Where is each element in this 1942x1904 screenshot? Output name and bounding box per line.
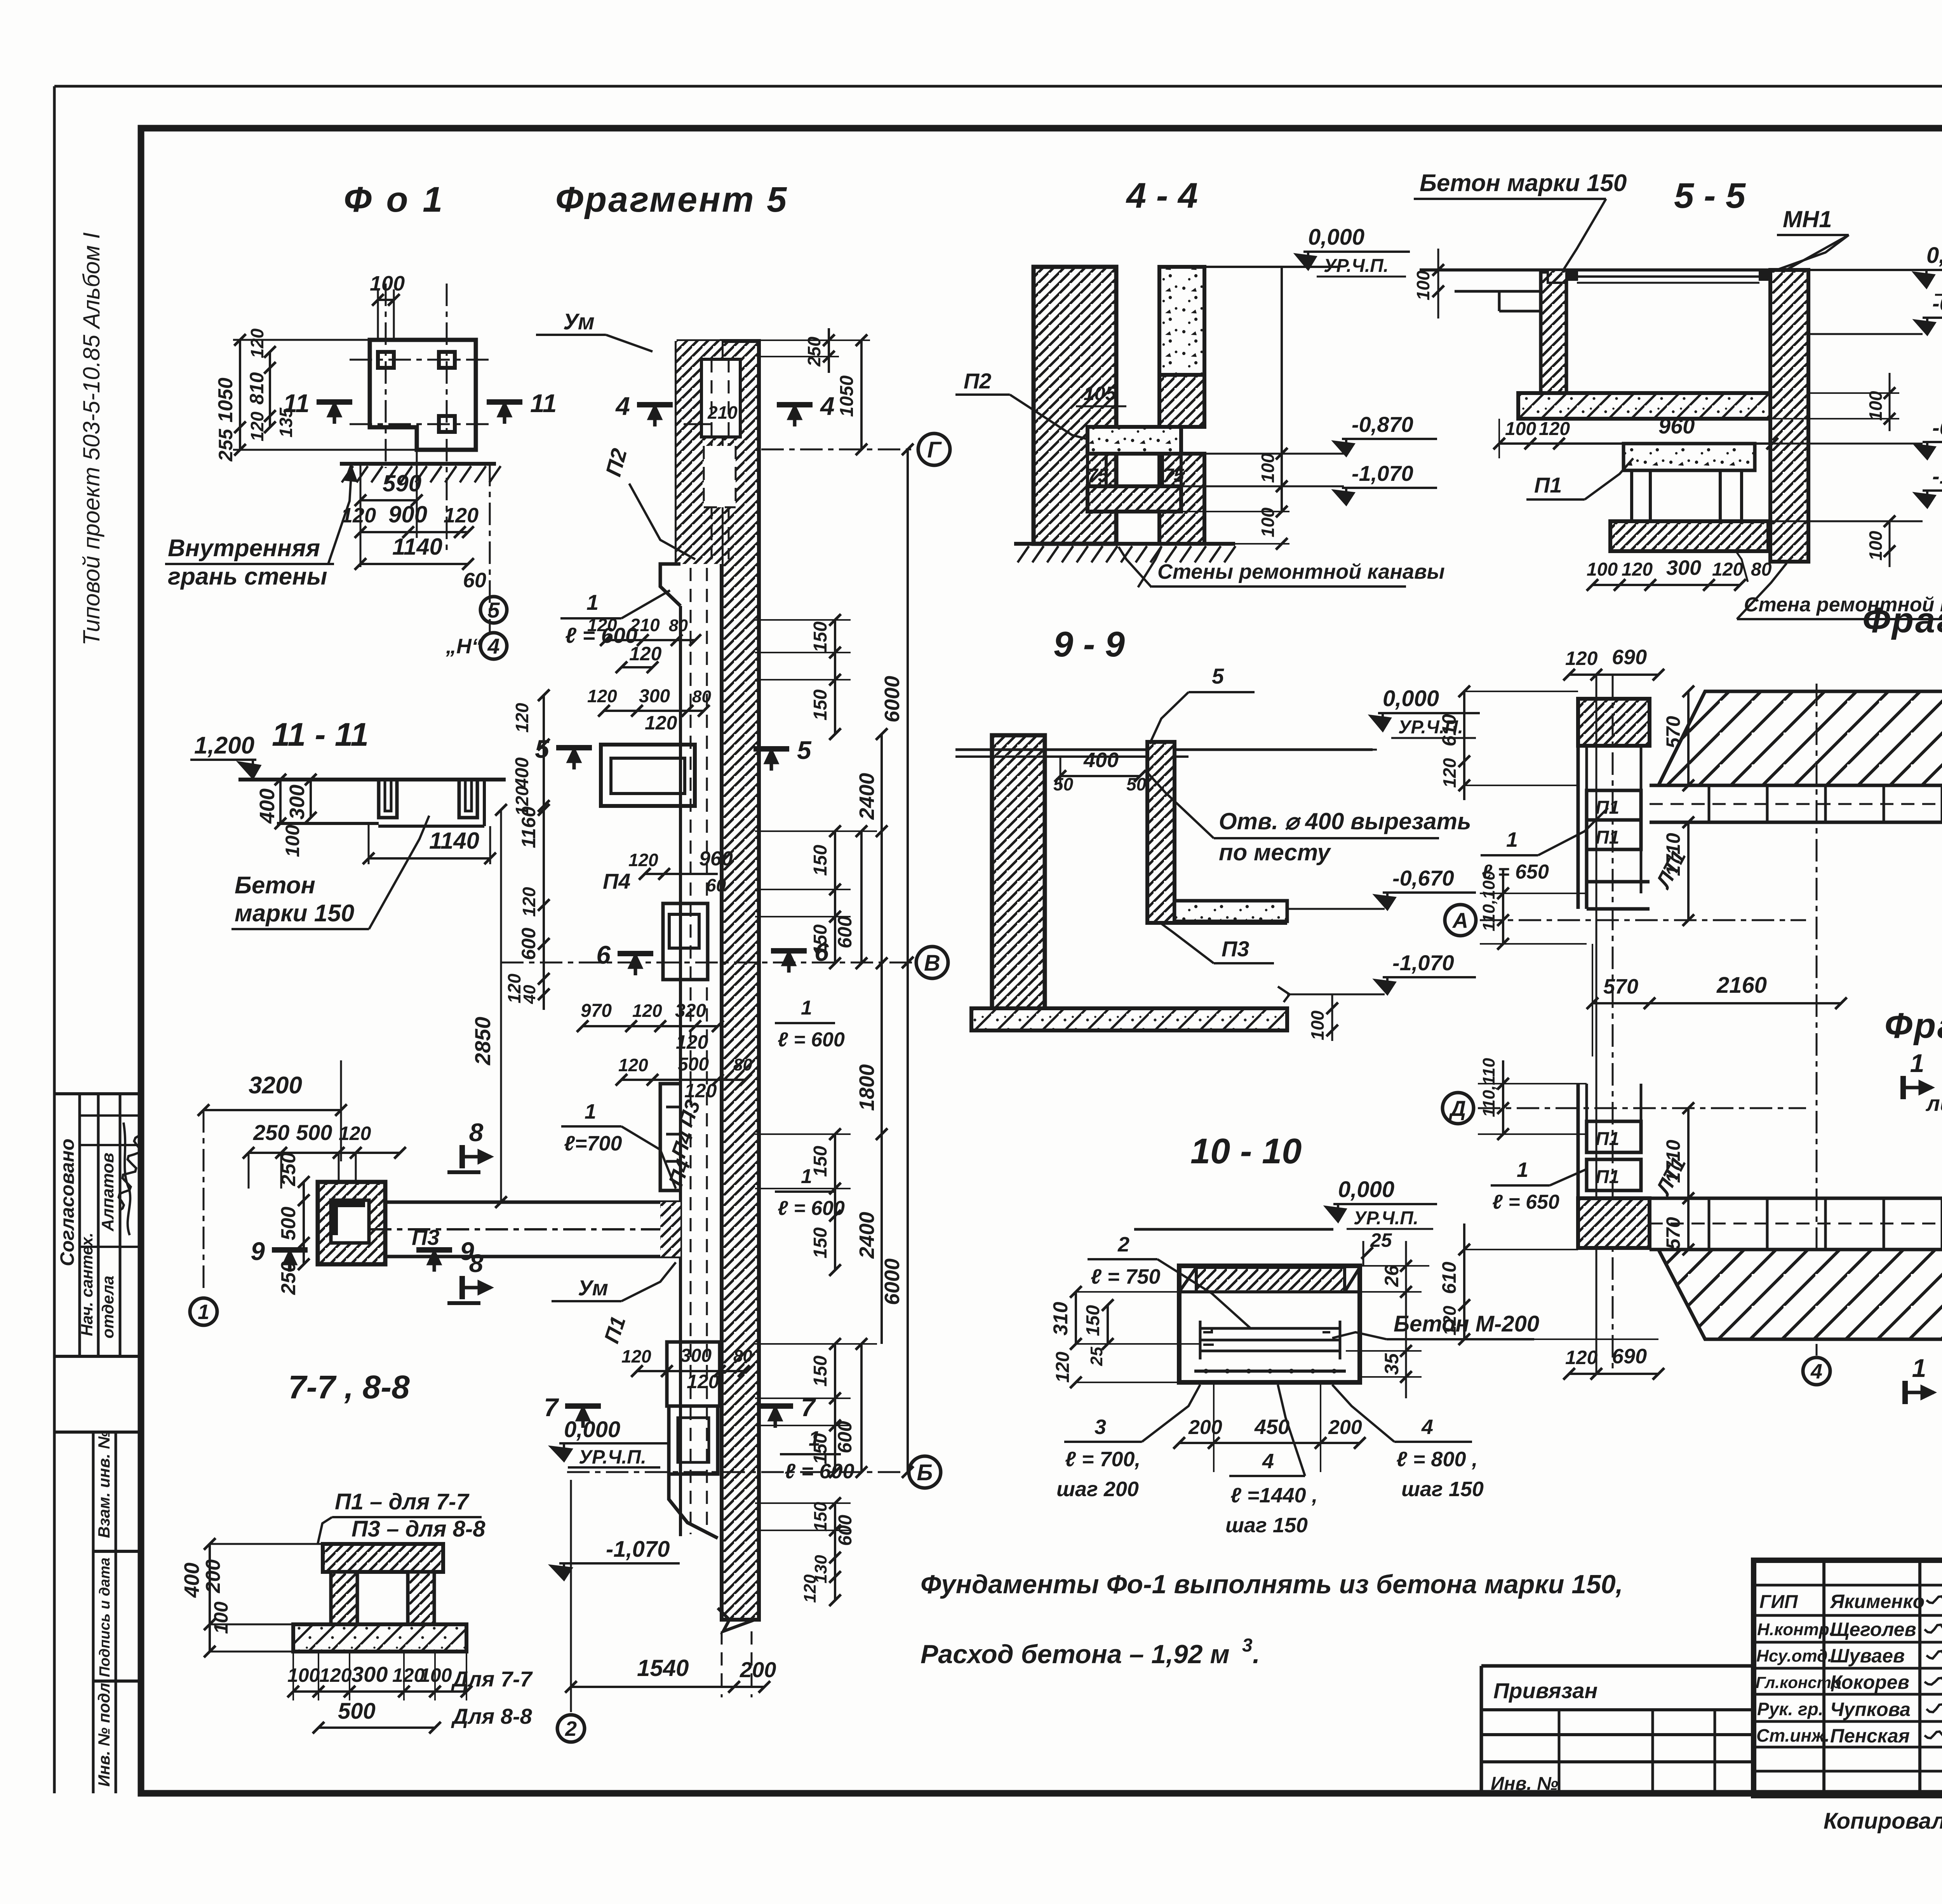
- svg-text:100: 100: [1865, 391, 1886, 421]
- svg-text:П1: П1: [1596, 1129, 1619, 1149]
- svg-text:100: 100: [282, 825, 303, 857]
- svg-text:120: 120: [687, 1371, 719, 1392]
- svg-text:150: 150: [810, 1356, 831, 1387]
- svg-text:4: 4: [615, 392, 630, 420]
- svg-text:ℓ = 650: ℓ = 650: [1492, 1191, 1559, 1213]
- privyazan sub table: [1481, 1664, 1754, 1668]
- section flags 4: [637, 402, 673, 407]
- title block outer box: [1754, 1560, 1942, 1796]
- 7-7 base slab: [293, 1624, 466, 1652]
- svg-text:2160: 2160: [1716, 973, 1767, 998]
- svg-text:Бетон: Бетон: [235, 872, 315, 899]
- svg-text:2850: 2850: [470, 1017, 495, 1066]
- svg-text:4: 4: [1262, 1450, 1274, 1473]
- grid line down from Fo1: [489, 464, 491, 632]
- svg-text:500: 500: [296, 1120, 332, 1145]
- svg-text:150: 150: [810, 1146, 831, 1177]
- svg-text:-0,870: -0,870: [1932, 415, 1942, 440]
- svg-text:9 - 9: 9 - 9: [1053, 625, 1125, 664]
- svg-text:Г: Г: [927, 437, 942, 463]
- grid bubble 4: [1803, 1358, 1830, 1385]
- svg-text:10 - 10: 10 - 10: [1190, 1131, 1302, 1171]
- outer thin frame: [54, 85, 1942, 88]
- grid bubble 4 with H mark: [480, 633, 507, 659]
- fragment 5 upper hatch left part: [677, 341, 722, 564]
- svg-text:690: 690: [1612, 1345, 1647, 1368]
- svg-text:200: 200: [1188, 1416, 1222, 1439]
- 5-5 lower P1 strip: [1624, 444, 1755, 470]
- svg-text:-0,870: -0,870: [1352, 412, 1413, 437]
- fragment 5 wall left edge: [675, 341, 679, 564]
- svg-text:120: 120: [1565, 1347, 1598, 1368]
- square duct plan with hatch: [318, 1182, 385, 1264]
- svg-text:120: 120: [1622, 559, 1653, 580]
- svg-text:2400: 2400: [855, 773, 879, 820]
- title block name rows: [1754, 1584, 1942, 1587]
- svg-text:310: 310: [1049, 1302, 1072, 1336]
- svg-text:250: 250: [253, 1120, 289, 1145]
- svg-text:300: 300: [1666, 556, 1701, 580]
- svg-text:80: 80: [733, 1347, 752, 1366]
- svg-text:Инв. № подл.: Инв. № подл.: [95, 1678, 113, 1787]
- svg-text:ℓ = 600: ℓ = 600: [778, 1029, 845, 1051]
- fragment 5 upper inner duct white: [701, 359, 740, 437]
- svg-text:1: 1: [801, 997, 812, 1019]
- svg-text:„Н“: „Н“: [445, 635, 482, 658]
- svg-text:255: 255: [215, 428, 237, 462]
- svg-text:отдела: отдела: [99, 1276, 117, 1338]
- svg-text:УР.Ч.П.: УР.Ч.П.: [1354, 1208, 1418, 1229]
- svg-text:Инв. №: Инв. №: [1491, 1773, 1558, 1794]
- svg-text:320: 320: [675, 1001, 706, 1021]
- svg-text:120: 120: [628, 850, 658, 870]
- svg-text:250: 250: [277, 1152, 300, 1187]
- svg-text:3: 3: [1242, 1635, 1253, 1656]
- box at section 5: [601, 745, 695, 806]
- svg-text:100: 100: [287, 1664, 320, 1686]
- svg-text:5 - 5: 5 - 5: [1674, 176, 1746, 216]
- svg-text:150: 150: [810, 845, 831, 876]
- svg-text:0,000: 0,000: [1383, 686, 1439, 711]
- svg-text:Внутренняя: Внутренняя: [168, 535, 320, 562]
- frag7 wall block row: [1650, 1197, 1942, 1200]
- svg-text:100: 100: [1865, 531, 1886, 560]
- svg-text:Рук. гр.: Рук. гр.: [1757, 1699, 1824, 1719]
- svg-text:300: 300: [639, 686, 670, 707]
- svg-text:1140: 1140: [429, 828, 479, 854]
- left dim chain upper: [543, 695, 545, 810]
- svg-text:60: 60: [463, 569, 486, 592]
- svg-text:1710: 1710: [1662, 1140, 1684, 1183]
- svg-text:1: 1: [586, 590, 599, 614]
- svg-text:120: 120: [676, 1031, 708, 1053]
- svg-text:4 - 4: 4 - 4: [1126, 176, 1198, 216]
- 5-5 left floor step lines: [1455, 290, 1541, 293]
- grid bubble A: [1445, 905, 1476, 936]
- svg-text:100: 100: [1413, 270, 1433, 300]
- grid line V: [501, 962, 913, 964]
- svg-text:Алпатов: Алпатов: [98, 1153, 117, 1232]
- svg-text:ℓ =1440 ,: ℓ =1440 ,: [1230, 1484, 1318, 1507]
- section marks 8: [459, 1145, 465, 1168]
- svg-text:3200: 3200: [249, 1072, 302, 1099]
- title block verticals: [1822, 1560, 1825, 1796]
- 4-4 top level line: [1204, 266, 1338, 268]
- svg-text:1160: 1160: [518, 806, 539, 848]
- fragment5 step at 1450: [660, 564, 680, 606]
- svg-text:570: 570: [1662, 1217, 1684, 1250]
- svg-text:грань стены: грань стены: [168, 563, 327, 590]
- grid bubble 5: [480, 597, 507, 623]
- svg-text:250: 250: [277, 1261, 300, 1295]
- svg-text:4: 4: [1421, 1415, 1433, 1439]
- 5-5 right wall: [1770, 270, 1808, 562]
- svg-text:ℓ = 700,: ℓ = 700,: [1065, 1448, 1141, 1471]
- wall bottom break: [718, 1608, 755, 1631]
- 9-9 slab P3: [1175, 901, 1287, 921]
- svg-text:150: 150: [810, 924, 831, 955]
- svg-text:100: 100: [370, 272, 405, 295]
- svg-text:8: 8: [469, 1249, 484, 1277]
- svg-text:0,000: 0,000: [564, 1417, 620, 1442]
- Fo1 foundation plan outline: [370, 340, 476, 450]
- svg-text:120: 120: [339, 1123, 371, 1144]
- svg-text:0,000: 0,000: [1308, 225, 1364, 250]
- svg-text:1: 1: [1517, 1158, 1528, 1182]
- svg-text:П2: П2: [964, 369, 991, 393]
- fragment5 horizontal ext lines right: [755, 619, 851, 621]
- 4-4 left wall hatched: [1034, 267, 1116, 544]
- svg-text:Бетон марки 150: Бетон марки 150: [1420, 170, 1627, 197]
- left margin stamp table upper: [54, 1092, 141, 1095]
- svg-text:П1: П1: [1534, 473, 1562, 497]
- svg-text:960: 960: [1658, 414, 1695, 438]
- svg-text:110,100: 110,100: [1479, 871, 1498, 931]
- svg-text:100: 100: [1587, 559, 1618, 580]
- svg-text:1: 1: [1912, 1354, 1926, 1382]
- svg-text:Гл.констр: Гл.констр: [1756, 1673, 1841, 1692]
- svg-text:-1,070: -1,070: [1392, 950, 1454, 975]
- svg-text:1050: 1050: [837, 375, 857, 417]
- svg-text:120: 120: [800, 1574, 820, 1603]
- svg-text:ℓ = 750: ℓ = 750: [1091, 1265, 1161, 1288]
- svg-text:лист 12: лист 12: [1925, 1091, 1942, 1116]
- svg-text:9: 9: [251, 1237, 265, 1265]
- svg-text:П1 – для 7-7: П1 – для 7-7: [335, 1489, 470, 1514]
- grid bubble D: [1443, 1093, 1474, 1124]
- duct channel lines to the right: [385, 1201, 680, 1204]
- 5-5 MN1 channel lines: [1566, 275, 1770, 278]
- svg-text:Типовой проект 503-5-10.85: Типовой проект 503-5-10.85 Альбом I: [78, 232, 104, 646]
- svg-text:Ум: Ум: [563, 309, 595, 334]
- svg-text:75: 75: [1088, 465, 1109, 486]
- fragment5 formwork dashed lines: [690, 568, 692, 1534]
- svg-text:120: 120: [1439, 758, 1460, 788]
- svg-text:А: А: [1452, 908, 1468, 933]
- svg-text:210: 210: [630, 615, 660, 635]
- 4-4 ground line: [1014, 542, 1235, 546]
- svg-text:80: 80: [1751, 559, 1772, 580]
- right chain bottom 150 600 130 120: [834, 1503, 836, 1600]
- svg-text:Пенская: Пенская: [1830, 1725, 1910, 1747]
- svg-text:-1,070: -1,070: [1352, 461, 1413, 486]
- svg-text:3: 3: [1095, 1415, 1106, 1439]
- svg-text:60: 60: [706, 875, 726, 895]
- svg-text:120: 120: [444, 504, 479, 527]
- lower window boxes: [667, 1342, 720, 1406]
- svg-text:1,200: 1,200: [194, 732, 254, 759]
- svg-text:5: 5: [797, 736, 812, 764]
- svg-text:5: 5: [487, 598, 500, 622]
- svg-text:П4: П4: [603, 869, 630, 893]
- svg-text:В: В: [924, 950, 940, 976]
- svg-text:200: 200: [740, 1657, 776, 1682]
- fragment 5 right dim chain outer: [907, 449, 909, 1472]
- frag6 left wall cells P1: [1587, 790, 1641, 820]
- svg-text:50: 50: [1126, 774, 1147, 794]
- 5-5 ground line: [1420, 268, 1809, 272]
- svg-text:1: 1: [585, 1100, 596, 1123]
- svg-text:П3: П3: [412, 1225, 439, 1250]
- grid bubble 2: [570, 1480, 572, 1712]
- 4-4 lower legs: [1088, 454, 1106, 486]
- 5-5 bottom slab: [1610, 521, 1768, 551]
- grid line B bottom: [567, 1471, 905, 1473]
- svg-text:Согласовано: Согласовано: [56, 1138, 78, 1266]
- svg-text:шаг 200: шаг 200: [1056, 1478, 1139, 1501]
- svg-text:2: 2: [1117, 1233, 1129, 1256]
- svg-text:690: 690: [1612, 646, 1647, 669]
- 7-7 top slab hatched: [323, 1544, 443, 1572]
- window box middle: [663, 903, 708, 980]
- svg-text:120: 120: [587, 615, 617, 635]
- 5-5 beton wedge at pier top: [1548, 270, 1566, 283]
- svg-text:120: 120: [512, 703, 532, 733]
- 9-9 bottom slab: [971, 1008, 1287, 1030]
- frag7 flags bottom: [1902, 1381, 1908, 1404]
- svg-text:120: 120: [1439, 1305, 1460, 1335]
- svg-text:150: 150: [810, 689, 831, 721]
- svg-text:120: 120: [247, 411, 267, 441]
- frag7 left corner foot: [1578, 1198, 1650, 1248]
- svg-text:500: 500: [678, 1054, 709, 1075]
- svg-text:Отв. ⌀ 400 вырезать: Отв. ⌀ 400 вырезать: [1219, 808, 1471, 834]
- Fo1 anchor square top-left: [378, 352, 394, 368]
- svg-text:Подпись и дата: Подпись и дата: [97, 1558, 113, 1677]
- svg-text:П3 – для 8-8: П3 – для 8-8: [352, 1516, 486, 1542]
- svg-text:0,000: 0,000: [1926, 243, 1942, 268]
- 7-7 legs: [331, 1572, 357, 1624]
- svg-text:Якименко: Якименко: [1829, 1591, 1925, 1612]
- svg-text:150: 150: [810, 1502, 830, 1532]
- 4-4 level marks right: [1281, 267, 1283, 513]
- frag7 bottom lintel hatched band: [1658, 1250, 1942, 1339]
- section marks 9: [272, 1247, 308, 1253]
- svg-text:УР.Ч.П.: УР.Ч.П.: [579, 1446, 646, 1468]
- svg-text:-1,070: -1,070: [1932, 464, 1942, 488]
- svg-text:4: 4: [1810, 1360, 1822, 1383]
- svg-text:200: 200: [202, 1559, 224, 1594]
- grid line and bubble 1: [203, 1110, 205, 1293]
- svg-text:600: 600: [834, 916, 856, 949]
- svg-text:Для 7-7: Для 7-7: [451, 1667, 533, 1691]
- svg-text:500: 500: [277, 1207, 300, 1241]
- Fo1 centrelines: [350, 359, 489, 361]
- svg-text:7: 7: [801, 1393, 816, 1422]
- svg-text:100: 100: [1258, 453, 1278, 483]
- svg-text:П1: П1: [1596, 1167, 1619, 1187]
- 10-10 inner rebars: [1200, 1327, 1340, 1330]
- svg-text:100: 100: [210, 1601, 232, 1634]
- fragment5 wall left edge lower: [679, 606, 682, 1536]
- 11-11 right slab: [378, 825, 484, 828]
- svg-text:Ст.инж.: Ст.инж.: [1756, 1725, 1830, 1746]
- svg-text:810: 810: [246, 372, 268, 405]
- 11-11 left slab bottom: [277, 822, 379, 825]
- 9-9 right duct wall hatched: [1147, 742, 1175, 923]
- stepped boxes on wall left 2790-3070: [660, 1084, 680, 1190]
- svg-text:150: 150: [810, 1433, 831, 1464]
- 10-10 top hatched lid: [1196, 1267, 1345, 1292]
- svg-text:П1: П1: [1596, 827, 1619, 848]
- 9-9 top floor lines: [955, 748, 1373, 751]
- svg-text:Бетон М-200: Бетон М-200: [1394, 1311, 1539, 1337]
- svg-text:6000: 6000: [881, 1258, 904, 1305]
- svg-text:570: 570: [1603, 975, 1638, 998]
- svg-text:150: 150: [1083, 1305, 1103, 1336]
- svg-text:Ум: Ум: [578, 1276, 608, 1300]
- 4-4 right wall lower hatched: [1159, 454, 1204, 544]
- svg-text:610: 610: [1438, 1262, 1460, 1294]
- svg-text:-0,250: -0,250: [1932, 291, 1942, 315]
- svg-text:970: 970: [581, 1001, 612, 1021]
- frag7 left wall cells: [1587, 1121, 1641, 1152]
- svg-text:Щеголев: Щеголев: [1830, 1619, 1916, 1640]
- svg-text:7: 7: [544, 1393, 559, 1422]
- svg-text:Д: Д: [1449, 1096, 1466, 1121]
- svg-text:11: 11: [530, 389, 557, 418]
- svg-text:1540: 1540: [637, 1655, 689, 1681]
- svg-text:1: 1: [198, 1300, 209, 1324]
- svg-text:1140: 1140: [392, 534, 442, 560]
- svg-text:5: 5: [1212, 664, 1224, 688]
- svg-text:300: 300: [352, 1662, 388, 1686]
- svg-text:120: 120: [519, 887, 539, 917]
- svg-text:марки 150: марки 150: [235, 900, 354, 927]
- section flags 6: [618, 951, 653, 956]
- svg-text:Б: Б: [917, 1460, 933, 1485]
- svg-text:400: 400: [1083, 748, 1119, 772]
- svg-text:100: 100: [1307, 1010, 1328, 1040]
- svg-text:П3: П3: [1222, 936, 1249, 961]
- vertical grid line 4: [1816, 684, 1818, 1356]
- wall bottom taper: [669, 1474, 718, 1538]
- svg-text:50: 50: [1053, 774, 1074, 794]
- section flags 5: [556, 745, 592, 750]
- svg-text:400: 400: [180, 1563, 204, 1598]
- svg-text:210: 210: [707, 402, 738, 423]
- svg-text:26: 26: [1381, 1265, 1403, 1287]
- svg-text:ГИП: ГИП: [1759, 1592, 1798, 1612]
- fragment 5 hidden duct below window: [701, 436, 740, 438]
- svg-text:2400: 2400: [855, 1212, 879, 1259]
- svg-text:4: 4: [820, 392, 835, 420]
- Fo1 anchor square bottom-right: [439, 416, 455, 432]
- frag6 wall block row: [1650, 784, 1942, 787]
- svg-text:1: 1: [1506, 828, 1518, 851]
- svg-text:Кокорев: Кокорев: [1830, 1671, 1909, 1693]
- Fo1 anchor square top-right: [439, 352, 455, 368]
- svg-text:300: 300: [680, 1345, 712, 1366]
- svg-text:400: 400: [256, 788, 279, 824]
- svg-text:Копировал: Копировал: [1824, 1808, 1942, 1834]
- svg-text:шаг 150: шаг 150: [1225, 1514, 1308, 1537]
- svg-text:1710: 1710: [1662, 833, 1684, 876]
- grid line G: [761, 449, 913, 451]
- svg-text:500: 500: [338, 1699, 376, 1724]
- svg-text:120: 120: [587, 686, 617, 706]
- 10-10 bottom dim chain: [1179, 1442, 1360, 1444]
- svg-text:Чупкова: Чупкова: [1830, 1699, 1911, 1720]
- svg-text:120: 120: [618, 1055, 648, 1075]
- svg-text:6000: 6000: [881, 676, 904, 722]
- svg-text:80: 80: [692, 687, 711, 706]
- svg-text:7-7 , 8-8: 7-7 , 8-8: [288, 1369, 410, 1405]
- svg-text:150: 150: [810, 621, 831, 653]
- svg-text:200: 200: [1328, 1416, 1362, 1439]
- 11-11 top slab line: [238, 778, 506, 781]
- svg-text:-0,670: -0,670: [1392, 866, 1454, 890]
- svg-text:1: 1: [1910, 1049, 1925, 1077]
- svg-text:80: 80: [733, 1055, 752, 1074]
- svg-text:75: 75: [1163, 465, 1185, 486]
- svg-text:Ф о 1: Ф о 1: [344, 180, 445, 219]
- frag6 long extension verticals left: [1596, 675, 1597, 1374]
- svg-text:450: 450: [1254, 1415, 1289, 1439]
- svg-text:120: 120: [504, 973, 524, 1003]
- svg-text:шаг 150: шаг 150: [1401, 1478, 1484, 1501]
- 9-9 break marks: [1278, 987, 1289, 1002]
- svg-text:1050: 1050: [214, 378, 237, 423]
- svg-text:120: 120: [684, 1080, 717, 1102]
- svg-text:900: 900: [388, 501, 427, 527]
- svg-text:Фундаменты Фо-1 выполнять и: Фундаменты Фо-1 выполнять из бетона марк…: [921, 1570, 1623, 1599]
- 5-5 lower legs: [1632, 470, 1650, 521]
- Fo1 left dim chain: [239, 340, 241, 450]
- svg-text:-1,070: -1,070: [606, 1537, 670, 1562]
- svg-text:.: .: [1253, 1639, 1260, 1669]
- svg-text:6: 6: [596, 940, 611, 969]
- svg-text:120: 120: [247, 328, 267, 358]
- svg-text:Взам. инв. №: Взам. инв. №: [95, 1431, 113, 1538]
- svg-text:4: 4: [487, 634, 499, 658]
- svg-text:Фрагмент 5: Фрагмент 5: [555, 180, 788, 219]
- section flags 7: [565, 1403, 601, 1409]
- 9-9 left wall hatched: [992, 735, 1045, 1015]
- svg-text:110,110: 110,110: [1479, 1058, 1498, 1117]
- svg-text:Нсу.отд.: Нсу.отд.: [1756, 1646, 1832, 1666]
- 4-4 slab P2 concrete strip: [1088, 427, 1181, 454]
- svg-text:Стена ремонтной канавы: Стена ремонтной канавы: [1744, 593, 1942, 616]
- 10-10 channel box: [1179, 1266, 1360, 1382]
- svg-text:300: 300: [285, 785, 309, 820]
- svg-text:8: 8: [469, 1118, 484, 1147]
- svg-text:Нач. сантех.: Нач. сантех.: [78, 1232, 96, 1336]
- fragment 5 main wall hatched band: [722, 341, 759, 1620]
- title block signatures: [1926, 1596, 1942, 1605]
- svg-text:400: 400: [512, 757, 532, 789]
- Fo1 ground line with hatch: [340, 462, 496, 466]
